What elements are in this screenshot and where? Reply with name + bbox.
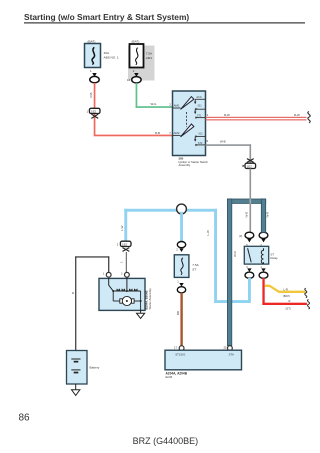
- break symbol yellow: [305, 288, 307, 298]
- svg-text:25: 25: [224, 346, 228, 350]
- relay block gray panel: [128, 46, 155, 81]
- svg-text:1: 1: [90, 69, 92, 73]
- AM2 terminal: [173, 131, 181, 135]
- starter assembly box: [99, 278, 145, 310]
- ground under battery: [72, 384, 80, 395]
- ST1 terminal: [195, 114, 205, 118]
- svg-text:BR: BR: [176, 311, 180, 315]
- svg-text:ST1: ST1: [197, 114, 202, 117]
- relay bottom arrows: [247, 268, 251, 272]
- svg-text:Starting (w/o Smart Entry & St: Starting (w/o Smart Entry & Start System…: [24, 12, 189, 22]
- switch wedge AM1: [181, 97, 194, 110]
- switch assembly label: [179, 157, 209, 168]
- starter motor: [113, 291, 141, 310]
- svg-text:14: 14: [127, 78, 131, 82]
- relay top-left oval: [245, 232, 254, 238]
- svg-text:1E2: 1E2: [247, 164, 253, 168]
- svg-text:STA: STA: [229, 353, 234, 357]
- starter assembly label (rotated): [145, 288, 153, 310]
- battery: [67, 351, 100, 385]
- svg-text:ST: ST: [192, 267, 196, 271]
- connector oval under F1: [90, 76, 99, 82]
- ECM pin circle left: [179, 346, 184, 351]
- svg-text:2: 2: [169, 103, 171, 107]
- svg-text:L-W: L-W: [120, 225, 124, 231]
- relay coil: [261, 248, 263, 263]
- ST2 terminal: [195, 142, 205, 146]
- ECM label: [166, 372, 188, 380]
- relay switch contact: [248, 248, 252, 262]
- ignition or starter switch assembly box: [173, 91, 206, 156]
- svg-text:W-R: W-R: [233, 251, 237, 257]
- connector oval under F2: [132, 77, 141, 83]
- fuse F3 7.5A ST: [174, 255, 199, 278]
- svg-text:7.5A: 7.5A: [192, 263, 199, 267]
- svg-text:IG1: IG1: [198, 104, 203, 107]
- wire light blue down to ST fuse: [180, 212, 183, 242]
- svg-text:B: B: [71, 292, 75, 294]
- title: [24, 12, 305, 23]
- svg-text:IG2: IG2: [199, 132, 204, 135]
- svg-text:1: 1: [207, 113, 209, 117]
- starter pin circle right: [125, 272, 130, 277]
- svg-text:AM1: AM1: [146, 56, 153, 60]
- svg-text:(BAT): (BAT): [283, 294, 290, 298]
- svg-text:W-G: W-G: [151, 102, 158, 106]
- starter solenoid switch: [109, 278, 115, 292]
- wire light blue net: [120, 209, 251, 303]
- svg-text:86: 86: [19, 412, 31, 423]
- svg-text:Starter Assembly: Starter Assembly: [148, 288, 152, 310]
- svg-text:W-B: W-B: [220, 140, 226, 144]
- svg-text:3: 3: [246, 266, 248, 269]
- svg-text:BRZ (G4400BE): BRZ (G4400BE): [133, 436, 199, 446]
- svg-text:Assembly: Assembly: [179, 163, 191, 167]
- relay top-right oval: [259, 232, 268, 238]
- break symbol red: [307, 300, 309, 310]
- svg-text:2: 2: [121, 273, 123, 276]
- svg-text:R-B: R-B: [155, 131, 160, 135]
- wire black battery to starter: [71, 256, 109, 350]
- svg-text:1: 1: [87, 110, 89, 114]
- svg-text:1E2: 1E2: [91, 109, 97, 113]
- svg-text:(ST): (ST): [286, 307, 291, 311]
- fuse F2 7.5A AM1: [130, 40, 154, 68]
- ST relay box: [244, 246, 268, 264]
- ST fuse connector oval top: [177, 242, 185, 248]
- svg-text:17: 17: [174, 346, 178, 350]
- svg-text:1: 1: [177, 280, 179, 284]
- svg-text:ABS NO. 1: ABS NO. 1: [104, 56, 119, 60]
- wire brown to ECM: [180, 293, 182, 346]
- wire green F2 to AM1: [136, 83, 138, 108]
- svg-text:(3): (3): [239, 234, 242, 238]
- svg-text:(BAT): (BAT): [132, 40, 140, 44]
- svg-text:1: 1: [103, 273, 105, 276]
- svg-text:R-W: R-W: [294, 113, 300, 117]
- svg-text:W-B: W-B: [245, 212, 249, 218]
- in-line connector 4 on gray wire: [243, 159, 256, 169]
- wire to starter solenoid: [125, 252, 127, 273]
- svg-text:Relay: Relay: [271, 256, 279, 260]
- wire red relay output: [262, 278, 307, 305]
- relay bottom-left oval: [245, 272, 254, 278]
- svg-text:AM2: AM2: [174, 131, 180, 135]
- wire red F1 to AM2 (vertical): [94, 83, 96, 136]
- wire ST2 gray: [206, 140, 252, 164]
- svg-text:L-W: L-W: [206, 230, 210, 236]
- switch wedge AM2: [181, 124, 194, 137]
- wire ST1 double red to right: [206, 113, 307, 120]
- svg-text:ST1SIG: ST1SIG: [175, 353, 185, 357]
- relay bottom-right oval: [259, 272, 268, 278]
- svg-text:ECM: ECM: [166, 375, 173, 379]
- svg-text:2: 2: [117, 242, 119, 246]
- connector arrow: [179, 283, 183, 287]
- fuse F1 40A (fusible link): [85, 40, 119, 68]
- svg-text:R-B: R-B: [89, 92, 93, 97]
- connector arrow under F1: [92, 73, 96, 77]
- ACC terminal: [194, 96, 206, 104]
- svg-text:6: 6: [207, 139, 209, 143]
- connector arrow: [179, 248, 183, 252]
- starter pin circle left: [106, 272, 111, 277]
- in-line connector 2 on starter wire: [117, 241, 131, 251]
- svg-text:40A: 40A: [104, 51, 110, 55]
- svg-text:AM1: AM1: [174, 104, 180, 108]
- starter contacts: [113, 277, 140, 292]
- wire red horizontal to AM2: [94, 135, 173, 137]
- svg-text:R: R: [289, 299, 291, 303]
- svg-text:1: 1: [119, 261, 123, 263]
- break symbol ST1 wire: [308, 112, 310, 123]
- svg-text:7: 7: [169, 131, 171, 135]
- junction circle node A: [177, 204, 187, 214]
- svg-text:1: 1: [260, 266, 262, 269]
- svg-text:W-R: W-R: [266, 212, 270, 218]
- svg-text:R-W: R-W: [224, 113, 230, 117]
- svg-text:L-R: L-R: [284, 288, 288, 292]
- svg-text:2: 2: [176, 248, 178, 252]
- wire teal STA net: [227, 199, 269, 346]
- svg-text:Battery: Battery: [90, 365, 100, 369]
- AM1 terminal: [173, 104, 181, 108]
- connector arrow under F2: [134, 73, 138, 77]
- in-line connector 1 on red wire: [87, 108, 100, 118]
- wire gray down to relay: [250, 169, 252, 233]
- IG2 terminal: [194, 132, 206, 141]
- mechanical link dashed: [186, 112, 188, 127]
- wire gray crossing over teal bar: [250, 199, 252, 204]
- IG1 terminal: [194, 104, 206, 114]
- ground under starter: [137, 310, 145, 318]
- ECM box: [165, 350, 242, 370]
- ECM pin circle right: [228, 346, 233, 351]
- wire yellow branch: [265, 286, 306, 292]
- svg-text:1E2: 1E2: [122, 242, 128, 246]
- relay top arrows: [247, 239, 251, 243]
- svg-text:ACC: ACC: [196, 96, 201, 99]
- ST fuse connector oval bottom: [177, 287, 185, 293]
- svg-text:7.5A: 7.5A: [146, 52, 153, 56]
